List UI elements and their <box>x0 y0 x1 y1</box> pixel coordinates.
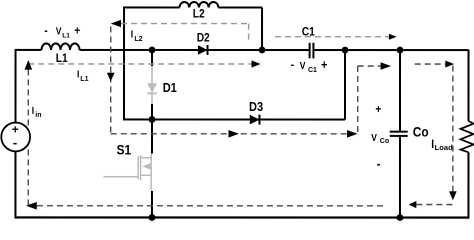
resistor load <box>461 121 474 152</box>
dashed I_Load top <box>415 63 446 65</box>
svg-text:L1: L1 <box>62 32 70 39</box>
arrow right I_L1 end <box>252 60 261 67</box>
svg-text:L1: L1 <box>56 52 68 65</box>
svg-text:V: V <box>300 60 306 71</box>
dashed loop I_L2 top <box>121 24 249 42</box>
arrow right C1 top <box>389 34 397 40</box>
capacitor Co <box>390 132 408 136</box>
svg-text:D2: D2 <box>197 32 210 45</box>
arrow right I_Load top <box>445 61 454 68</box>
svg-text:+: + <box>321 57 327 72</box>
inductor L1 <box>42 43 80 50</box>
arrow down x=110.7 <box>107 73 115 82</box>
svg-text:-: - <box>13 135 17 150</box>
svg-text:L1: L1 <box>80 76 88 83</box>
arrow right y=133.8 mid <box>228 130 239 138</box>
svg-text:in: in <box>35 112 41 119</box>
dashed I_Load bottom <box>416 204 452 206</box>
arrow right y=133.8 end <box>347 130 358 138</box>
svg-text:L2: L2 <box>134 36 142 43</box>
wire left rail <box>14 49 16 217</box>
svg-text:D3: D3 <box>249 99 263 114</box>
dashed path C1 top <box>275 36 389 38</box>
dashed bottom outer <box>37 205 386 207</box>
svg-text:Co: Co <box>413 123 429 139</box>
wire right rail <box>467 50 469 218</box>
diode D3 <box>250 115 260 125</box>
svg-text:C1: C1 <box>302 26 315 39</box>
diode D2 <box>198 45 208 55</box>
dashed horizontal y=66 I_Co <box>358 65 381 67</box>
dashed vertical x=110.7 <box>110 26 112 133</box>
svg-text:V: V <box>371 132 377 143</box>
arrow left I_L2 <box>111 20 121 27</box>
source circle I_in <box>1 123 30 152</box>
dashed I_Load right <box>452 66 454 192</box>
svg-text:-: - <box>291 59 295 72</box>
svg-text:L2: L2 <box>193 8 205 21</box>
junction dots <box>149 47 156 54</box>
svg-text:C1: C1 <box>308 67 317 74</box>
wire Co branch <box>399 50 401 217</box>
diode D1 (gray) <box>147 66 157 104</box>
svg-text:+: + <box>74 25 80 38</box>
wire main top y=50 <box>15 49 469 51</box>
arrow up I_in <box>25 60 33 70</box>
svg-text:I: I <box>32 105 34 116</box>
wire D1 branch black parts <box>151 49 153 120</box>
svg-text:S1: S1 <box>117 142 132 158</box>
dashed vertical x=357.7 <box>357 66 359 134</box>
svg-text:V: V <box>56 26 62 37</box>
arrow down I_Load right <box>449 191 457 200</box>
arrow left bottom outer <box>26 202 37 210</box>
arrow left I_Load bottom <box>409 201 417 208</box>
wire bottom rail <box>14 216 469 218</box>
wire S1 branch black parts <box>151 119 153 217</box>
svg-text:D1: D1 <box>163 80 177 95</box>
inductor L2 <box>180 2 219 8</box>
capacitor C1 <box>310 43 314 59</box>
svg-text:-: - <box>44 25 48 38</box>
dashed horizontal y=133.8 <box>111 133 348 135</box>
dashed loop I_L1 <box>28 63 251 65</box>
svg-text:I: I <box>77 69 79 80</box>
svg-text:+: + <box>375 104 381 117</box>
arrow right I_Co <box>381 62 391 70</box>
wire L2 branch <box>124 7 262 119</box>
svg-text:Load: Load <box>435 143 454 152</box>
dashed left vertical I_in <box>27 69 29 205</box>
svg-text:Co: Co <box>380 138 389 145</box>
svg-text:-: - <box>377 156 381 171</box>
wire D3 branch <box>123 50 345 120</box>
transistor S1 (gray MOSFET) <box>103 153 151 191</box>
svg-text:I: I <box>131 29 133 40</box>
